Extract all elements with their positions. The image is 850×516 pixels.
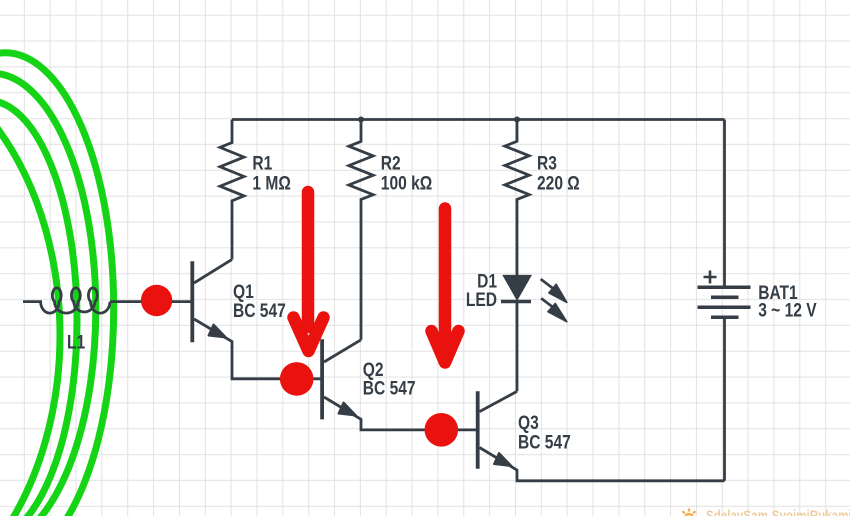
LED light arrow lower xyxy=(541,298,555,309)
battery plus sign xyxy=(704,271,717,284)
transistor Q3 xyxy=(478,391,725,481)
inductor L1 xyxy=(23,288,110,313)
svg-text:100 kΩ: 100 kΩ xyxy=(381,172,433,194)
transistor Q2 xyxy=(322,339,477,430)
svg-text:BC 547: BC 547 xyxy=(363,377,416,399)
svg-text:R1: R1 xyxy=(252,152,272,174)
junction node on top rail above R2 xyxy=(358,117,364,123)
resistor R3 xyxy=(505,120,529,276)
svg-text:L1: L1 xyxy=(67,331,85,353)
svg-text:BC 547: BC 547 xyxy=(233,300,286,322)
resistor R1 xyxy=(220,120,244,260)
wire: L1 to Q1 base xyxy=(110,300,191,303)
junction node on top rail above R3 xyxy=(514,117,520,123)
svg-text:3 ~ 12 V: 3 ~ 12 V xyxy=(758,299,817,321)
resistor R2 xyxy=(349,120,373,340)
coil antenna green winding arcs xyxy=(0,45,114,516)
red node dot at L1/Q1 base xyxy=(141,285,172,316)
battery BAT1 xyxy=(698,120,751,481)
green arc 1 (outer) xyxy=(0,53,114,516)
LED light arrow upper xyxy=(541,279,567,322)
LED D1 cathode bar xyxy=(501,300,531,304)
svg-text:R3: R3 xyxy=(537,152,557,174)
wire: LED cathode down to Q3 collector xyxy=(516,302,519,391)
svg-text:1 MΩ: 1 MΩ xyxy=(252,172,291,194)
watermark sun icon xyxy=(680,509,698,516)
green arc 3 xyxy=(0,101,77,516)
svg-text:SdelaySam-SvoimiRukami.ru: SdelaySam-SvoimiRukami.ru xyxy=(706,507,850,516)
green arc 4 (inner) xyxy=(0,45,60,516)
transistor Q1 xyxy=(192,259,322,378)
LED D1 triangle xyxy=(504,276,531,300)
svg-text:220 Ω: 220 Ω xyxy=(537,172,580,194)
svg-text:R2: R2 xyxy=(381,152,401,174)
red node dot at Q2 emitter / Q3 base xyxy=(425,413,459,447)
svg-text:LED: LED xyxy=(466,289,497,311)
red arrow 1 xyxy=(294,192,324,351)
green arc 2 xyxy=(0,73,96,516)
red arrow 2 xyxy=(432,209,459,363)
wire: top rail xyxy=(232,118,725,121)
svg-text:BC 547: BC 547 xyxy=(518,431,571,453)
red node dot at Q1 emitter / Q2 base xyxy=(280,362,314,396)
